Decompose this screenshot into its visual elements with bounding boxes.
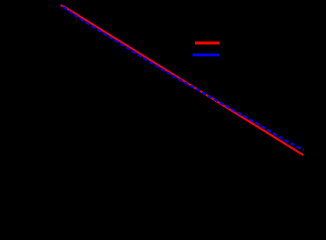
legend red swatch [195, 42, 220, 45]
first data point dot (blue over red) [60, 4, 62, 6]
blue series line [63, 7, 304, 150]
red series line [63, 6, 302, 155]
legend blue swatch [193, 54, 220, 57]
